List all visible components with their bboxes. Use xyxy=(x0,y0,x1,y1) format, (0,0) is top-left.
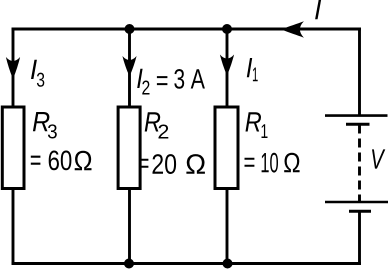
wire middle branch upper xyxy=(128,29,131,107)
battery cell 2 long plate xyxy=(325,201,388,204)
arrow current I3 xyxy=(6,57,20,79)
label R3 xyxy=(33,112,57,138)
wire battery bottom lead xyxy=(358,212,361,265)
label I3 xyxy=(31,60,44,87)
battery cell 1 short plate xyxy=(346,123,370,126)
wire left branch upper xyxy=(12,28,15,107)
label R1 xyxy=(246,112,268,138)
label I1 xyxy=(247,58,258,81)
wire right branch upper xyxy=(226,29,229,107)
label R3 value 60 ohm xyxy=(31,150,92,170)
label R2 value 20 ohm xyxy=(140,154,205,174)
wire right branch lower xyxy=(226,189,229,264)
resistor R1 xyxy=(215,107,238,189)
wire bottom bus xyxy=(12,262,361,265)
wire top bus xyxy=(12,28,361,31)
resistor R2 xyxy=(118,107,140,189)
label V battery voltage xyxy=(372,149,385,168)
wire middle branch lower xyxy=(128,189,131,264)
node junction bottom middle xyxy=(124,259,134,269)
resistor R3 xyxy=(2,107,24,189)
battery dashed link xyxy=(358,125,361,203)
label R1 value 10 ohm xyxy=(245,153,300,173)
arrow current I1 xyxy=(220,55,234,76)
label I2 = 3 A xyxy=(137,69,205,95)
node junction bottom right xyxy=(223,259,233,269)
battery cell 1 long plate xyxy=(325,114,388,117)
label I top current xyxy=(315,0,321,19)
battery cell 2 short plate xyxy=(349,210,371,213)
arrow current I on top bus xyxy=(282,21,304,37)
node junction top middle xyxy=(125,24,135,34)
arrow current I2 xyxy=(122,56,136,77)
wire battery top lead xyxy=(358,28,361,115)
wire left branch lower xyxy=(12,189,15,265)
label R2 xyxy=(145,112,169,138)
node junction top right xyxy=(222,24,232,34)
